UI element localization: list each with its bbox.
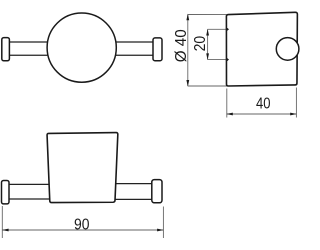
wire 90 extension right	[162, 207, 164, 239]
node bottom left end cap	[2, 181, 10, 204]
node circle plate	[47, 13, 116, 82]
wire right rod lines	[115, 42, 154, 55]
wire 90 dimension line	[2, 229, 163, 231]
wire 40 extension left	[226, 89, 228, 118]
svg-text:Ø 40: Ø 40	[173, 29, 190, 62]
wire left rod lines	[9, 42, 48, 55]
node peg circle	[276, 38, 299, 61]
wire 20 dimension line	[207, 29, 209, 59]
node dia40 arrow up	[186, 14, 189, 21]
node square plate body	[47, 133, 118, 203]
node bottom right end cap	[152, 180, 162, 203]
node 20 tick dot top	[226, 28, 229, 31]
wire dia40 extension bottom	[188, 85, 227, 87]
wire dia40 dimension line	[187, 14, 189, 86]
node left end cap	[2, 38, 10, 61]
wire 90 extension left	[1, 206, 3, 238]
wire 20 extension bottom	[208, 59, 229, 61]
wire bottom right rod lines	[113, 184, 152, 200]
svg-text:40: 40	[256, 95, 271, 112]
wire 40 dimension line	[227, 113, 297, 115]
node 40 arrow left	[226, 113, 233, 116]
node 20 arrow down	[206, 53, 209, 60]
wire 40 extension right	[295, 88, 297, 118]
node 20 arrow up	[206, 29, 209, 36]
node 40 arrow right	[290, 113, 297, 116]
node 90 arrow left	[2, 229, 9, 232]
node right end cap	[153, 38, 162, 61]
svg-text:90: 90	[74, 217, 90, 234]
node 20 tick dot bottom	[226, 58, 229, 61]
wire 20 extension top	[208, 28, 229, 30]
node side body	[226, 12, 297, 86]
svg-text:20: 20	[192, 36, 209, 52]
node dia40 arrow down	[186, 80, 189, 87]
wire dia40 extension top	[188, 14, 227, 16]
wire bottom left rod lines	[9, 184, 50, 199]
node 90 arrow right	[157, 229, 164, 232]
